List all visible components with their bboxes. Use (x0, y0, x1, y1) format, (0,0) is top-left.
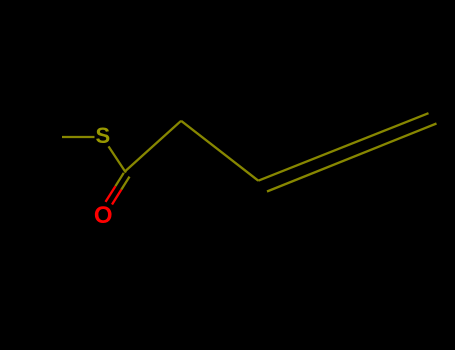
carbonyl C=O double bond, main line red half (106, 186, 116, 202)
long bond line lower parallel (267, 124, 437, 192)
bond S-C(carbonyl) (109, 146, 126, 172)
svg-text:S: S (95, 123, 110, 148)
long bond line upper (to top right) (258, 113, 428, 181)
carbonyl C=O double bond, second line olive half (121, 177, 129, 190)
svg-text:O: O (94, 202, 113, 229)
carbonyl C=O double bond, main line olive half (115, 173, 123, 186)
bond C-C down-right (181, 121, 258, 181)
bond CH3-S (methyl to sulfur) (62, 136, 95, 138)
carbonyl C=O double bond, second line red half (112, 190, 121, 205)
bond C(carbonyl)-C up-right (125, 121, 182, 172)
